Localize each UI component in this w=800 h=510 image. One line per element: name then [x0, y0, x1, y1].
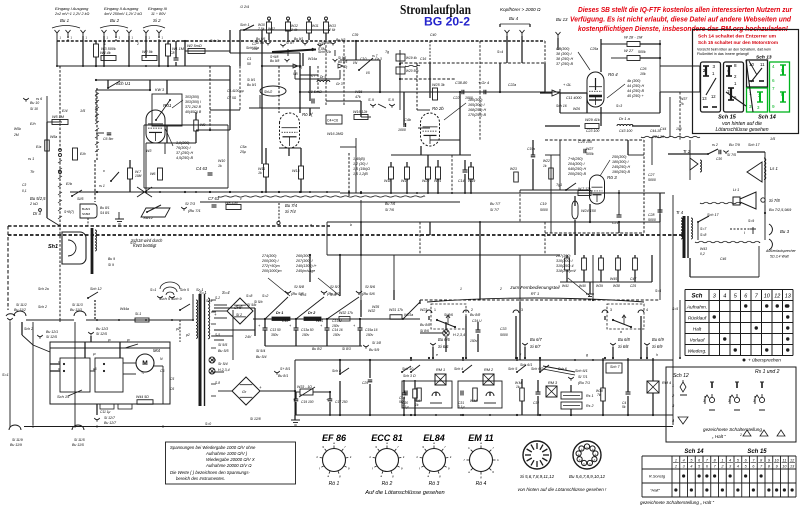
svg-text:Bu 11/9: Bu 11/9: [10, 443, 22, 447]
svg-text:C34-U: C34-U: [472, 319, 482, 323]
svg-text:C11 4000: C11 4000: [566, 96, 581, 100]
svg-text:W24 150: W24 150: [581, 209, 597, 213]
svg-text:Wiedergabe 20000 Ω/V X: Wiedergabe 20000 Ω/V X: [206, 457, 255, 462]
svg-text:303(300): 303(300): [185, 95, 199, 99]
svg-text:1,5 1,2(B: 1,5 1,2(B: [353, 172, 368, 176]
svg-text:200(250) B: 200(250) B: [567, 172, 587, 176]
svg-text:S=1: S=1: [150, 288, 156, 292]
svg-text:Gr: Gr: [242, 390, 247, 394]
svg-text:Sch 12: Sch 12: [90, 287, 103, 291]
svg-text:S=4: S=4: [222, 290, 230, 295]
svg-text:9: 9: [401, 467, 403, 471]
svg-text:Bu 8/2: Bu 8/2: [312, 347, 322, 351]
svg-text:E/h: E/h: [30, 122, 36, 126]
svg-text:Si 12/8: Si 12/8: [250, 417, 261, 421]
svg-text:2 kΩ: 2 kΩ: [29, 202, 38, 206]
svg-text:S=2: S=2: [130, 241, 136, 245]
svg-text:Sch 3 Ω: Sch 3 Ω: [403, 374, 416, 378]
svg-text:S=7: S=7: [700, 227, 707, 231]
svg-text:gezeichnete Schalterstellung: gezeichnete Schalterstellung: [703, 427, 762, 432]
svg-text:1k: 1k: [516, 385, 520, 389]
svg-text:Bu 3: Bu 3: [780, 229, 790, 234]
svg-text:W5b: W5b: [14, 127, 21, 131]
svg-text:13: 13: [785, 294, 792, 300]
svg-text:Bu 9/1: Bu 9/1: [294, 37, 303, 41]
svg-text:200(300) I: 200(300) I: [261, 259, 279, 263]
svg-text:S=5: S=5: [300, 293, 306, 297]
svg-text:C44: C44: [660, 127, 666, 131]
svg-text:Si 10: Si 10: [30, 107, 38, 111]
svg-text:9: 9: [772, 104, 775, 109]
svg-text:10k: 10k: [252, 47, 258, 51]
svg-text:C46: C46: [720, 257, 726, 261]
svg-text:Bu 6/9: Bu 6/9: [652, 337, 664, 342]
svg-text:Sh8M: Sh8M: [82, 212, 90, 216]
svg-text:E/4: E/4: [62, 109, 68, 113]
svg-text:C30: C30: [716, 157, 722, 161]
svg-text:S=6: S=6: [655, 289, 661, 293]
svg-text:BG 20-2: BG 20-2: [424, 17, 470, 29]
svg-text:Si 5/b: Si 5/b: [254, 300, 263, 304]
svg-text:Si 9/1: Si 9/1: [247, 78, 255, 82]
svg-text:Si 6/8: Si 6/8: [618, 344, 629, 349]
svg-text:245(250) H: 245(250) H: [611, 165, 631, 169]
svg-text:C7 63: C7 63: [208, 196, 220, 201]
svg-text:Si 7/4: Si 7/4: [285, 209, 296, 214]
svg-text:Verfügung. Es ist nicht erlaub: Verfügung. Es ist nicht erlaubt, diese D…: [570, 15, 792, 24]
svg-text:W32: W32: [368, 309, 375, 313]
svg-text:W8-CM: W8-CM: [225, 201, 239, 205]
svg-text:Sch 15: Sch 15: [57, 394, 70, 399]
svg-text:Bu 13: Bu 13: [556, 17, 568, 22]
svg-text:2: 2: [739, 433, 742, 437]
svg-text:0,5M: 0,5M: [318, 47, 326, 51]
svg-text:Si 7/7: Si 7/7: [490, 208, 500, 212]
svg-text:8: 8: [734, 63, 737, 68]
svg-text:Si 5/7: Si 5/7: [330, 284, 341, 289]
svg-text:Th: Th: [30, 170, 34, 174]
svg-text:0,2: 0,2: [700, 252, 705, 256]
svg-text:Sch 7: Sch 7: [610, 365, 620, 369]
svg-text:C4 63: C4 63: [196, 166, 208, 171]
svg-text:H 2,3,4: H 2,3,4: [218, 368, 230, 372]
svg-text:0,1: 0,1: [22, 189, 27, 193]
svg-text:4: 4: [729, 459, 731, 463]
svg-text:Si 5/4: Si 5/4: [256, 349, 265, 353]
svg-text:4: 4: [737, 465, 739, 469]
svg-text:150v: 150v: [302, 333, 310, 337]
svg-text:Lt 1: Lt 1: [733, 188, 739, 192]
svg-text:4mV 250mV 1,2V 2 kΩ: 4mV 250mV 1,2V 2 kΩ: [104, 12, 142, 16]
svg-text:Sch 1: Sch 1: [240, 23, 250, 27]
svg-text:240(1300) I+: 240(1300) I+: [295, 264, 317, 268]
svg-text:37 (250) B: 37 (250) B: [556, 62, 574, 66]
svg-text:Rs 1 und 2: Rs 1 und 2: [755, 369, 780, 375]
svg-text:200(1000)m: 200(1000)m: [261, 269, 282, 273]
svg-text:25μ: 25μ: [239, 150, 246, 154]
svg-text:RM 3: RM 3: [548, 381, 558, 385]
svg-text:C31-U: C31-U: [332, 319, 342, 323]
svg-text:Eingang III: Eingang III: [148, 6, 168, 11]
svg-text:170(250) B: 170(250) B: [468, 113, 487, 117]
svg-text:1k: 1k: [258, 171, 262, 175]
svg-text:+: +: [214, 312, 217, 317]
svg-text:rs 1: rs 1: [99, 184, 105, 188]
svg-text:10M: 10M: [135, 174, 142, 178]
svg-text:Sch 14 schaltet den Entzerrer: Sch 14 schaltet den Entzerrer um: [698, 34, 776, 40]
svg-text:Sch 15: Sch 15: [747, 449, 767, 455]
svg-text:2 4k: 2 4k: [290, 28, 298, 32]
svg-text:Bu 7/6: Bu 7/6: [385, 202, 395, 206]
svg-text:Bu 8/8: Bu 8/8: [420, 323, 430, 327]
svg-text:Rö 4: Rö 4: [608, 72, 618, 77]
svg-text:W.M: W.M: [470, 399, 477, 403]
svg-text:S+8(7): S+8(7): [64, 210, 74, 214]
svg-text:5Ω 2,4 Watt: 5Ω 2,4 Watt: [770, 255, 790, 259]
svg-text:1k: 1k: [218, 164, 222, 168]
svg-text:Si 8/3: Si 8/3: [342, 347, 351, 351]
svg-text:9: 9: [448, 467, 450, 471]
svg-text:S=5: S=5: [672, 307, 678, 311]
svg-text:W32 17k: W32 17k: [339, 311, 353, 315]
svg-text:W33 - 1Ω: W33 - 1Ω: [297, 385, 312, 389]
svg-text:W23: W23: [510, 167, 517, 171]
svg-text:C19 100: C19 100: [301, 400, 314, 404]
svg-text:Sch 2: Sch 2: [24, 327, 33, 331]
svg-text:9: 9: [322, 445, 324, 449]
svg-text:11: 11: [782, 459, 786, 463]
svg-text:(Bu 5/6: (Bu 5/6: [362, 291, 376, 296]
svg-text:260(300): 260(300): [295, 254, 311, 258]
svg-text:Sch 4: Sch 4: [454, 367, 463, 371]
svg-text:Rücklauf: Rücklauf: [688, 316, 707, 322]
svg-text:W26: W26: [573, 107, 580, 111]
svg-text:1: 1: [434, 308, 436, 312]
svg-text:9: 9: [375, 445, 377, 449]
svg-text:Lötanschlüsse gesehen: Lötanschlüsse gesehen: [715, 127, 768, 133]
svg-text:3: 3: [610, 308, 612, 312]
svg-text:S II: S II: [368, 98, 375, 102]
svg-text:Bu 5/9: Bu 5/9: [369, 348, 379, 352]
svg-text:Bu 8/1: Bu 8/1: [100, 206, 110, 210]
svg-text:UB: UB: [293, 72, 298, 76]
svg-text:2: 2: [137, 42, 139, 46]
svg-text:(Bu 7/1: (Bu 7/1: [578, 381, 590, 385]
svg-text:W16 12k: W16 12k: [353, 110, 367, 114]
svg-text:Außenlautsprecher: Außenlautsprecher: [765, 249, 797, 253]
svg-text:7+8(250): 7+8(250): [568, 157, 583, 161]
svg-text:Si-1: Si-1: [135, 312, 141, 316]
svg-text:1000: 1000: [398, 128, 406, 132]
svg-text:a: a: [380, 474, 382, 478]
svg-text:W29 41k: W29 41k: [585, 118, 601, 122]
svg-text:45 (250) +: 45 (250) +: [627, 94, 644, 98]
svg-text:1k: 1k: [543, 164, 547, 168]
svg-text:C7 5Ω: C7 5Ω: [227, 96, 237, 100]
svg-text:W4 4k: W4 4k: [100, 51, 112, 55]
svg-text:H 2,3,4: H 2,3,4: [453, 333, 465, 337]
svg-text:(Bu 7/1: (Bu 7/1: [188, 208, 201, 213]
svg-text:W35: W35: [372, 305, 379, 309]
svg-text:W45: W45: [610, 277, 617, 281]
svg-text:h: h: [656, 353, 658, 357]
svg-text:7,5k: 7,5k: [258, 27, 265, 31]
svg-text:g: g: [392, 474, 394, 478]
svg-text:C27: C27: [648, 173, 655, 177]
svg-text:Die Werte ( ) bezeichnen d: Die Werte ( ) bezeichnen den Spannungs-: [170, 470, 250, 475]
svg-text:p1: p1: [175, 327, 180, 331]
svg-text:W38: W38: [613, 284, 620, 288]
svg-text:Bu 5/2,5: Bu 5/2,5: [30, 196, 46, 201]
svg-text:C16: C16: [420, 57, 426, 61]
svg-text:C14 16: C14 16: [332, 328, 343, 332]
svg-text:Dr 5: Dr 5: [320, 75, 326, 79]
svg-text:Dr 1: Dr 1: [276, 311, 283, 315]
svg-text:S=8: S=8: [246, 294, 252, 298]
svg-text:Aufnahm.: Aufnahm.: [686, 305, 707, 311]
svg-text:9: 9: [348, 467, 350, 471]
svg-text:Sch 2a: Sch 2a: [38, 287, 49, 291]
svg-text:Sch 12: Sch 12: [673, 373, 689, 379]
svg-text:S-5: S-5: [215, 333, 220, 337]
svg-text:Gr 3: Gr 3: [336, 82, 343, 86]
svg-text:245(m/säge: 245(m/säge: [295, 269, 315, 273]
svg-text:1000: 1000: [465, 96, 473, 100]
svg-text:5000: 5000: [648, 178, 656, 182]
svg-text:Sch 6/2: Sch 6/2: [531, 367, 543, 371]
svg-text:250(300): 250(300): [611, 155, 627, 159]
svg-text:KW 3: KW 3: [155, 88, 165, 92]
svg-text:/1 2/4: /1 2/4: [239, 5, 249, 9]
svg-text:Bu 7/9: Bu 7/9: [729, 143, 740, 147]
svg-text:RT 1: RT 1: [531, 291, 540, 296]
svg-text:a: a: [468, 470, 470, 474]
svg-text:S-2: S-2: [215, 296, 220, 300]
svg-text:Vorsicht beim löten an den Sch: Vorsicht beim löten an den Schaltern, da…: [697, 48, 771, 52]
svg-text:S4 8/1: S4 8/1: [100, 211, 110, 215]
svg-text:2: 2: [471, 308, 473, 312]
svg-text:a: a: [386, 441, 388, 445]
svg-text:Sch 8: Sch 8: [332, 369, 341, 373]
svg-text:a: a: [310, 223, 312, 227]
svg-text:Bu 9: Bu 9: [108, 257, 115, 261]
svg-text:W16 2MΩ: W16 2MΩ: [327, 132, 343, 136]
svg-text:1/5: 1/5: [80, 109, 86, 113]
svg-text:Sch: Sch: [692, 294, 703, 300]
svg-text:W10: W10: [218, 159, 225, 163]
svg-text:5000: 5000: [500, 333, 508, 337]
svg-text:W37: W37: [680, 97, 688, 101]
svg-text:a: a: [427, 474, 429, 478]
svg-text:Si 2: Si 2: [236, 313, 242, 317]
svg-text:Bu 6/8: Bu 6/8: [618, 337, 630, 342]
svg-text:S=1: S=1: [2, 373, 9, 377]
svg-text:207(300): 207(300): [555, 254, 571, 258]
svg-text:Si 11/9: Si 11/9: [12, 438, 23, 442]
svg-text:10: 10: [764, 294, 771, 300]
svg-text:Sw12: Sw12: [143, 215, 154, 220]
svg-text:S=6: S=6: [330, 293, 336, 297]
svg-text:C39: C39: [352, 33, 358, 37]
svg-text:W14a: W14a: [308, 57, 317, 61]
svg-text:Tg: Tg: [385, 50, 389, 54]
svg-text:Rs 2: Rs 2: [586, 404, 593, 408]
svg-text:W5a: W5a: [50, 135, 57, 139]
svg-text:C25: C25: [630, 284, 636, 288]
svg-text:C19: C19: [540, 202, 546, 206]
svg-text:13: 13: [702, 96, 707, 101]
svg-text:W43: W43: [700, 247, 707, 251]
svg-text:S=2: S=2: [262, 294, 268, 298]
svg-text:371,262 B: 371,262 B: [185, 105, 202, 109]
svg-text:4: 4: [723, 294, 726, 300]
svg-text:W19: W19: [468, 179, 475, 183]
svg-text:5Ω: 5Ω: [399, 400, 404, 404]
svg-text:Sch 15 schaltet nur den Motor: Sch 15 schaltet nur den Motorstrom: [698, 40, 778, 46]
svg-text:Aufnahme 20000 Ω/V Ω: Aufnahme 20000 Ω/V Ω: [205, 463, 252, 468]
svg-text:44 (250) H: 44 (250) H: [627, 84, 645, 88]
svg-text:c: c: [240, 197, 242, 201]
svg-text:W11: W11: [312, 24, 319, 28]
svg-text:Sch 5: Sch 5: [180, 288, 189, 292]
svg-text:Halt: Halt: [693, 327, 702, 333]
svg-text:p2: p2: [185, 333, 190, 337]
svg-text:Bu 9/1: Bu 9/1: [247, 83, 256, 87]
svg-text:W20 50k: W20 50k: [406, 69, 419, 73]
svg-text:Si 7/5: Si 7/5: [727, 153, 736, 157]
svg-text:Si 6/6: Si 6/6: [438, 344, 449, 349]
svg-text:C5a: C5a: [240, 145, 246, 149]
svg-text:S=3: S=3: [616, 104, 622, 108]
svg-text:W25 3k: W25 3k: [432, 83, 446, 87]
svg-text:rs 2: rs 2: [712, 143, 718, 147]
svg-text:"Halt": "Halt": [650, 488, 660, 493]
svg-text:168(250) H: 168(250) H: [468, 108, 487, 112]
svg-text:Si 7/6: Si 7/6: [385, 208, 394, 212]
svg-text:Sch 15: Sch 15: [718, 115, 737, 121]
svg-text:C4b: C4b: [404, 118, 411, 122]
svg-text:Bu 6/7: Bu 6/7: [530, 337, 542, 342]
svg-text:Bu 7/7: Bu 7/7: [490, 202, 501, 206]
svg-text:W3: W3: [146, 149, 151, 153]
svg-text:Rö 2(: Rö 2(: [302, 112, 313, 117]
svg-text:9: 9: [776, 465, 778, 469]
svg-text:2M: 2M: [13, 133, 19, 137]
svg-text:4: 4: [683, 459, 685, 463]
svg-text:S=3: S=3: [236, 305, 242, 309]
svg-text:W2 5mΩ: W2 5mΩ: [187, 44, 202, 48]
svg-text:500k: 500k: [638, 50, 646, 54]
svg-text:24V: 24V: [244, 335, 252, 339]
svg-text:S=4: S=4: [497, 50, 503, 54]
svg-text:Sch 6/1: Sch 6/1: [520, 363, 532, 367]
svg-text:C28: C28: [648, 213, 654, 217]
svg-text:7k: 7k: [597, 393, 601, 397]
svg-text:Eingang II Ausgang: Eingang II Ausgang: [104, 6, 139, 11]
svg-text:Bu 5,6,7,8,9,10,12: Bu 5,6,7,8,9,10,12: [569, 474, 605, 479]
svg-text:Sch 2: Sch 2: [38, 305, 47, 309]
svg-text:W40: W40: [579, 284, 586, 288]
svg-text:Aufnahme 1000 Ω/V ): Aufnahme 1000 Ω/V ): [205, 451, 248, 456]
svg-text:C5: C5: [160, 369, 165, 373]
svg-text:Bu 10: Bu 10: [30, 101, 39, 105]
svg-text:W23a: W23a: [404, 313, 413, 317]
svg-text:Si 6/9: Si 6/9: [652, 344, 663, 349]
svg-text:W44 5Ω: W44 5Ω: [136, 395, 149, 399]
svg-text:RM 4: RM 4: [662, 381, 671, 385]
svg-text:4,5(250) B: 4,5(250) B: [176, 156, 194, 160]
svg-text:Bu 2: Bu 2: [110, 18, 120, 23]
svg-text:Bu 12/7: Bu 12/7: [104, 421, 117, 425]
svg-text:Rö 2b: Rö 2b: [432, 106, 444, 111]
svg-text:Tg1: Tg1: [556, 183, 562, 187]
svg-text:Bu 1: Bu 1: [60, 18, 70, 23]
svg-text:Dr 2: Dr 2: [308, 311, 316, 315]
svg-text:180(300) I: 180(300) I: [612, 160, 629, 164]
svg-text:2 6k: 2 6k: [328, 28, 336, 32]
svg-text:1: 1: [672, 383, 674, 388]
svg-text:C17 250: C17 250: [335, 400, 348, 404]
svg-text:Bu 5/5: Bu 5/5: [218, 349, 229, 353]
svg-text:150v: 150v: [332, 324, 340, 328]
svg-text:W13: W13: [292, 169, 299, 173]
svg-text:Rs 1: Rs 1: [586, 394, 593, 398]
svg-text:2: 2: [499, 287, 502, 291]
svg-text:Si 12/5: Si 12/5: [96, 332, 107, 336]
svg-text:5000: 5000: [648, 218, 656, 222]
svg-text:C2: C2: [252, 42, 257, 46]
svg-text:C12: C12: [282, 319, 288, 323]
svg-text:11: 11: [760, 62, 765, 67]
svg-text:Wiederg.: Wiederg.: [688, 349, 707, 355]
svg-text:Sch 14: Sch 14: [684, 449, 704, 455]
svg-text:1/5: 1/5: [770, 137, 776, 141]
svg-text:1,45(B): 1,45(B): [353, 157, 365, 161]
svg-text:4b (300): 4b (300): [627, 79, 641, 83]
svg-text:C23 100: C23 100: [586, 129, 599, 133]
svg-text:4: 4: [690, 465, 692, 469]
svg-text:Bu 8/1: Bu 8/1: [278, 374, 288, 378]
svg-text:E/a: E/a: [36, 145, 41, 149]
svg-text:e: e: [436, 353, 438, 357]
svg-text:C4+C6: C4+C6: [327, 119, 338, 123]
svg-text:a: a: [327, 474, 329, 478]
svg-text:+ GL: + GL: [563, 83, 571, 87]
svg-text:KW3 betätigt: KW3 betätigt: [133, 243, 157, 248]
svg-text:W31 17k: W31 17k: [389, 308, 403, 312]
svg-text:190(250) B: 190(250) B: [612, 170, 631, 174]
svg-text:Rö 3: Rö 3: [607, 175, 617, 180]
svg-text:Sch 6/1: Sch 6/1: [575, 369, 588, 373]
svg-text:Si 5/5: Si 5/5: [218, 343, 228, 347]
svg-text:bereich des Instrumentes.: bereich des Instrumentes.: [176, 476, 225, 481]
svg-text:1: 1: [104, 42, 106, 46]
svg-text:1: 1: [675, 459, 677, 463]
svg-text:Bu 8/8: Bu 8/8: [470, 313, 480, 317]
svg-text:C33: C33: [500, 327, 506, 331]
svg-text:Bu 4: Bu 4: [509, 16, 519, 21]
svg-text:Rö 1: Rö 1: [329, 481, 340, 487]
svg-text:Si 7/1: Si 7/1: [578, 375, 588, 379]
svg-text:C24 30: C24 30: [652, 135, 665, 139]
svg-text:kostenpflichtigen Dienste, ins: kostenpflichtigen Dienste, insbesondere …: [578, 24, 789, 33]
svg-text:zum Fernbedienungsteil: zum Fernbedienungsteil: [509, 285, 560, 290]
svg-text:ShU2: ShU2: [264, 90, 272, 94]
svg-text:150v: 150v: [333, 333, 341, 337]
svg-text:12: 12: [711, 94, 716, 99]
svg-text:76(300) I: 76(300) I: [176, 146, 191, 150]
svg-text:W31: W31: [316, 319, 323, 323]
